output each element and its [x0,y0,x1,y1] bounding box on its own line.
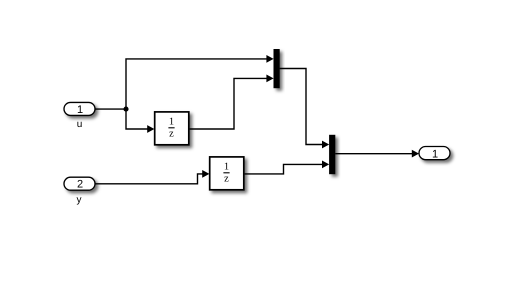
wire: mux M1 output to mux M2 input 1 [280,69,323,145]
arrowhead into unit delay U2 [202,170,209,178]
arrowhead into mux M2 input 1 [322,141,329,149]
unit delay block U2 (1/z) [210,157,244,190]
svg-text:1: 1 [77,104,83,116]
wire: unit delay U2 output to mux M2 input 2 [245,164,323,174]
outport block 1 [419,147,450,160]
arrowhead into mux M1 input 2 [266,75,273,83]
arrowhead into unit delay U1 [147,125,154,133]
svg-text:1: 1 [432,148,438,160]
wire: unit delay U1 output to mux M1 input 2 [190,78,268,129]
inport block 2 (y) [64,177,95,190]
arrowhead into outport 1 [412,150,419,158]
svg-text:2: 2 [77,179,83,191]
wire: mux M2 output to outport 1 [335,153,413,155]
arrowhead into mux M1 input 1 [266,55,273,63]
svg-text:1: 1 [169,117,174,128]
wire: inport u to junction [95,108,126,110]
svg-text:1: 1 [224,162,229,173]
wire: junction down to unit delay U1 input [126,109,148,129]
unit delay U1 value label 1/z [168,117,174,140]
unit delay block U1 (1/z) [155,112,189,145]
wire: inport y to unit delay U2 input [95,174,203,184]
svg-text:z: z [224,173,229,184]
junction node [123,107,128,112]
unit delay U2 value label 1/z [223,162,229,185]
svg-text:y: y [77,194,82,205]
svg-text:z: z [169,128,174,139]
wire: junction up to mux M1 input 1 [126,59,267,109]
mux block M2 [329,135,335,174]
arrowhead into mux M2 input 2 [322,161,329,169]
mux block M1 [274,49,280,88]
svg-text:u: u [77,119,83,130]
inport block 1 (u) [64,102,95,115]
